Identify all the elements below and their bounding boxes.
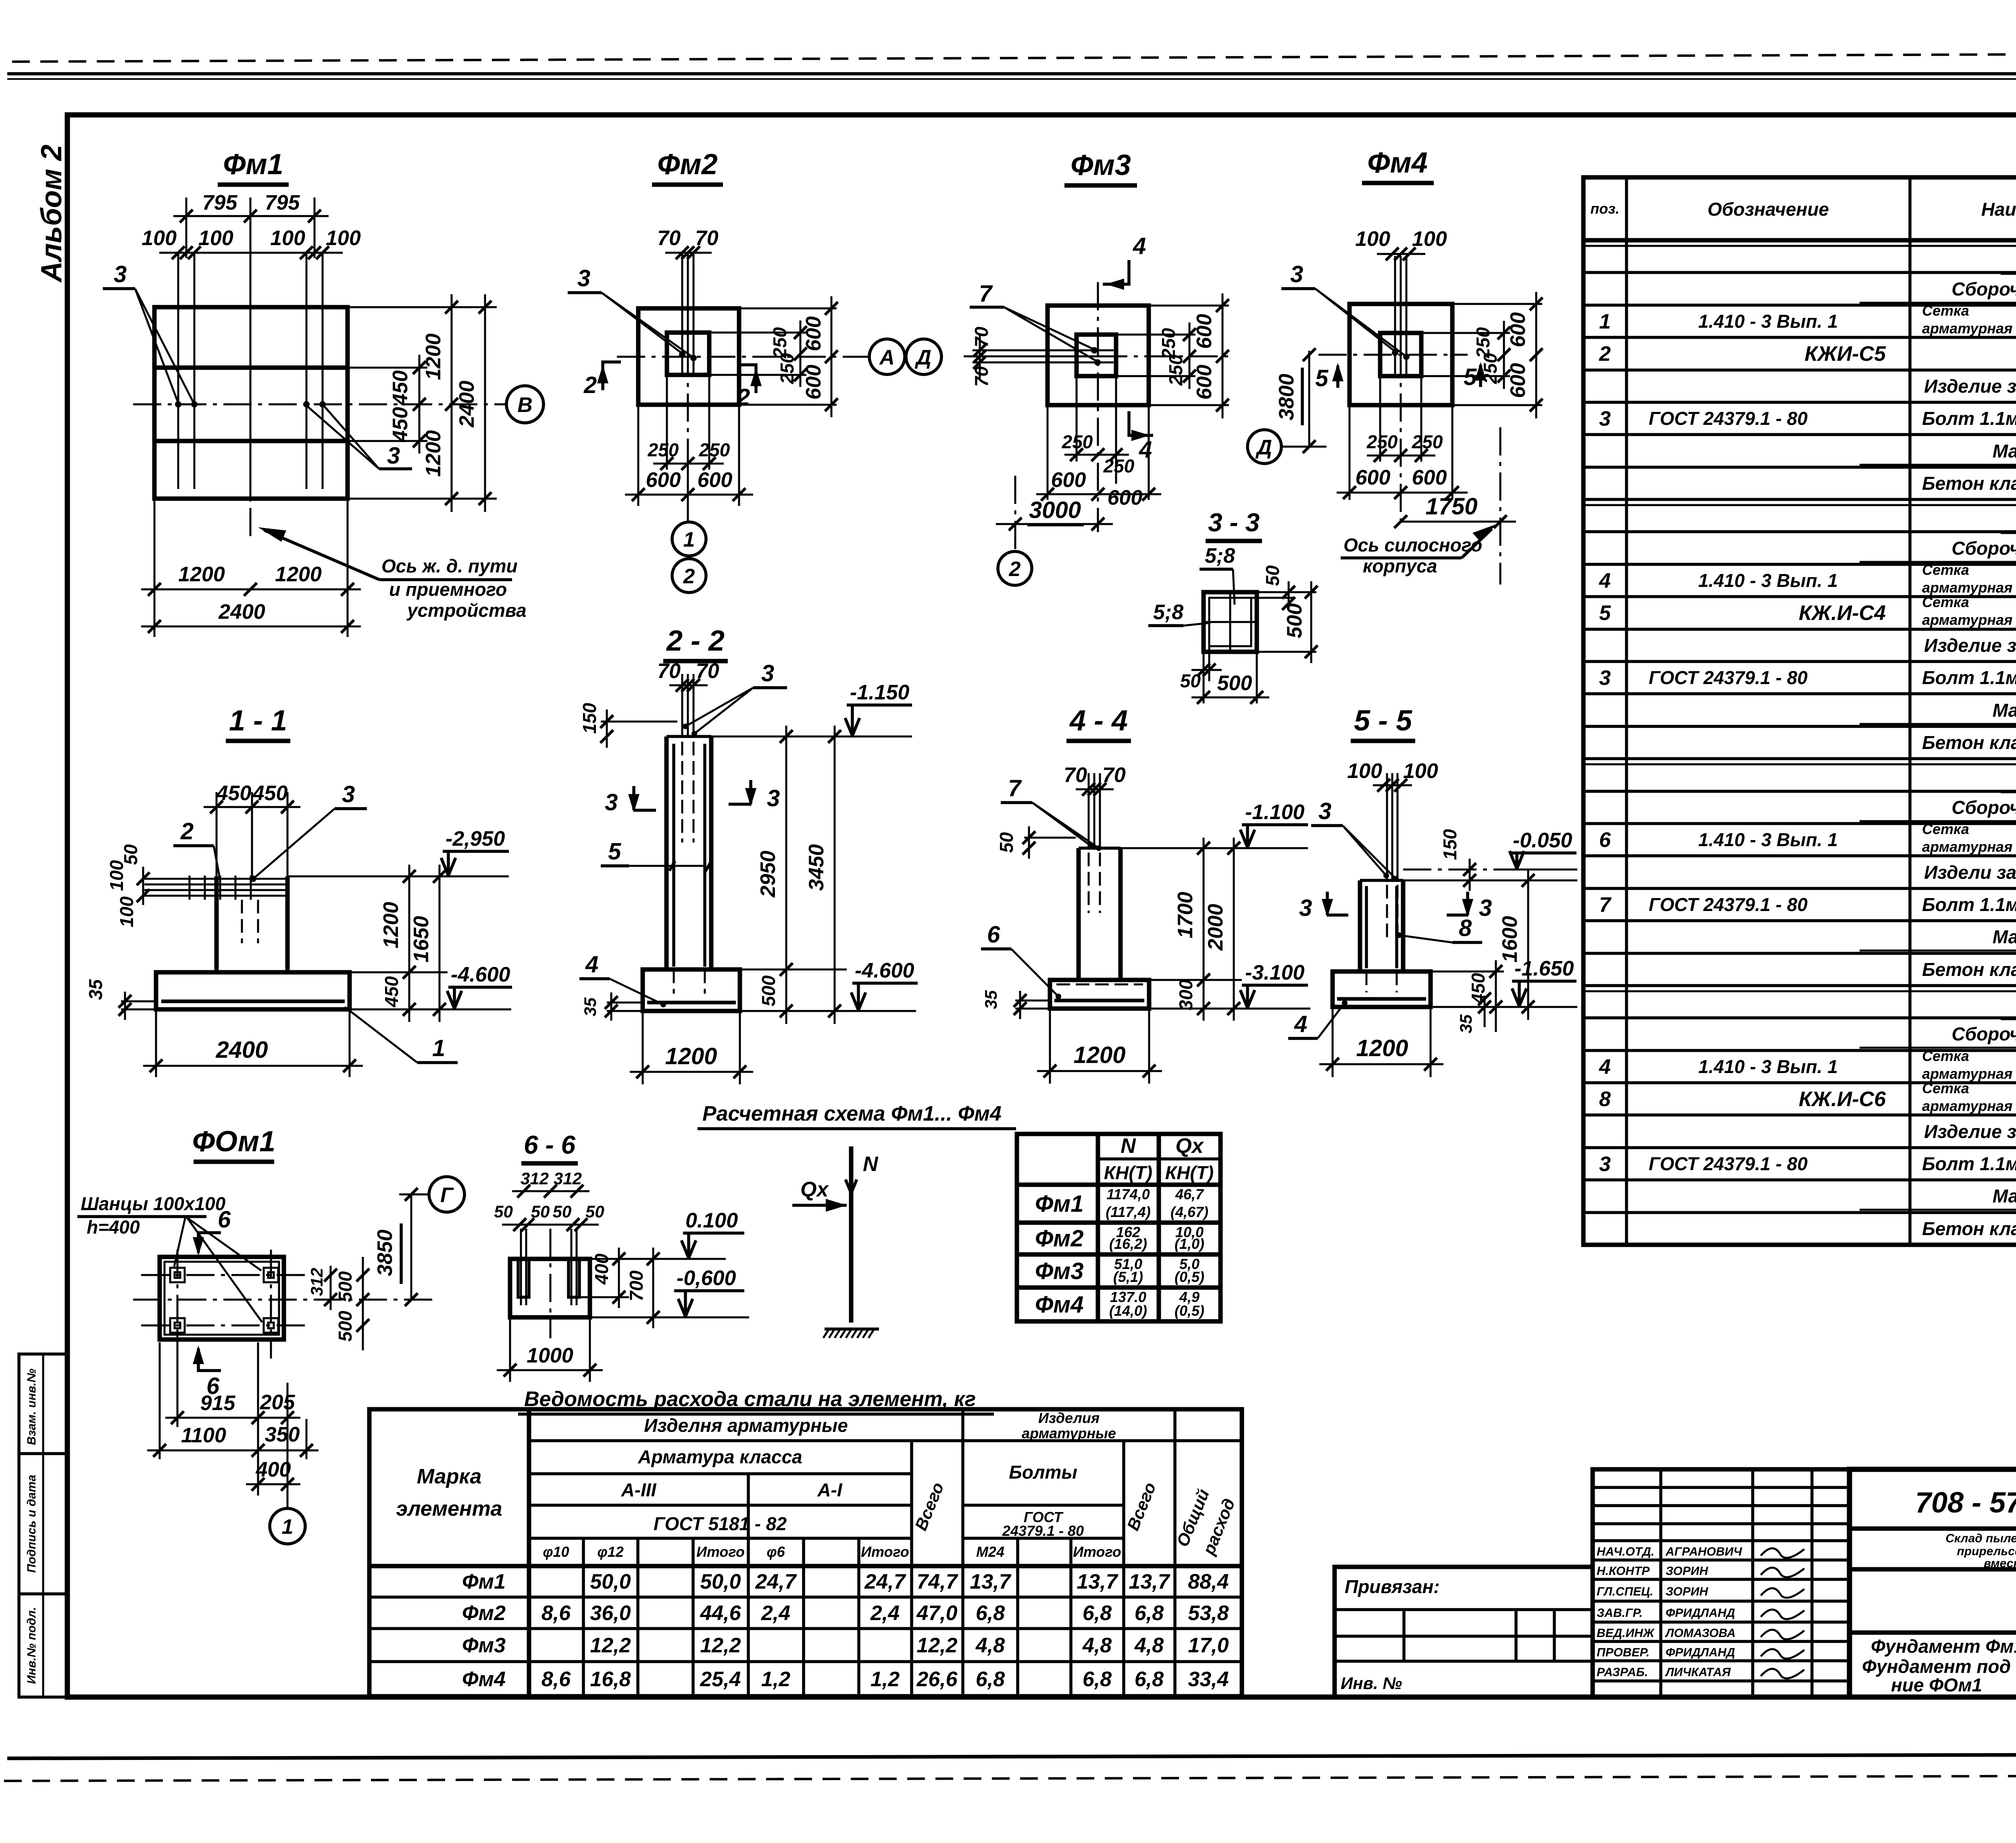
section 1-1 label 2 [173,818,220,878]
svg-text:(0,5): (0,5) [1175,1269,1204,1285]
spec row 27 [1599,1080,2016,1114]
svg-text:Сетка: Сетка [1922,594,1969,610]
plan Fm4 label 3 [1281,261,1406,356]
svg-text:600: 600 [646,468,681,492]
svg-text:Сетка: Сетка [1922,1048,1969,1064]
svg-text:-1.150: -1.150 [850,681,910,704]
svg-text:Д: Д [1255,436,1272,459]
spec row 13 [1924,635,2016,656]
section 5-5 section marks 3 [1299,892,1492,921]
section 2-2 label 4 [579,951,666,1007]
spec row 28 [1924,1121,2016,1142]
svg-text:500: 500 [758,975,779,1006]
svg-text:600: 600 [1506,363,1530,398]
svg-text:4: 4 [1133,233,1146,259]
svg-text:2950: 2950 [756,851,780,898]
plan Fm3 label 7 [970,281,1097,361]
svg-text:Фм3: Фм3 [1070,149,1131,181]
spec row 24 [1583,988,2016,1019]
svg-text:70: 70 [657,227,681,250]
section 1-1 left dims 50 100 100 [106,844,150,927]
svg-text:2: 2 [180,818,194,845]
svg-text:2: 2 [1599,342,1611,366]
spec row 8 [1922,473,2016,494]
svg-text:2: 2 [1009,557,1021,581]
svg-text:1200: 1200 [422,430,445,477]
svg-text:Фм2: Фм2 [657,148,718,181]
svg-text:Болт 1.1м24х500 Вст3кп2: Болт 1.1м24х500 Вст3кп2 [1922,894,2016,915]
svg-text:100: 100 [1347,759,1382,783]
svg-text:70: 70 [1102,763,1126,787]
svg-text:ЗОРИН: ЗОРИН [1666,1564,1708,1578]
svg-text:400: 400 [256,1458,291,1481]
plan Fm3 anchor bolts [973,347,1114,366]
svg-text:2400: 2400 [455,381,479,428]
title block text [1862,1487,2016,1695]
svg-text:ГОСТ 24379.1 - 80: ГОСТ 24379.1 - 80 [1649,1153,1808,1174]
calc scheme table [1017,1134,1220,1321]
svg-text:100: 100 [270,227,305,250]
svg-text:250: 250 [777,353,798,384]
svg-text:16,8: 16,8 [590,1668,631,1691]
svg-text:КН(Т): КН(Т) [1104,1162,1152,1183]
svg-text:6,8: 6,8 [976,1602,1005,1625]
plan Fm3 outline [1048,306,1149,405]
section 2-2 section marks 3 [605,780,780,815]
svg-text:Материалы: Материалы [1993,926,2016,947]
svg-text:Итого: Итого [696,1543,745,1560]
svg-text:1750: 1750 [1425,493,1477,520]
svg-text:25,4: 25,4 [700,1668,741,1691]
section 4-4 right dims [1120,838,1310,1021]
svg-text:35: 35 [581,997,600,1016]
plan Fm2 label 3 [568,265,693,357]
svg-text:1000: 1000 [527,1344,573,1367]
spec row 23 [1922,959,2016,980]
svg-text:-4.600: -4.600 [451,963,510,986]
svg-text:1: 1 [683,528,695,551]
svg-text:1200: 1200 [422,333,445,380]
plan Fm4 dim 1750 [1394,427,1516,585]
svg-text:795: 795 [265,191,300,214]
svg-text:350: 350 [265,1423,300,1446]
svg-text:6: 6 [987,921,1000,948]
spec row 4 [1599,342,2016,366]
svg-text:Подпись и дата: Подпись и дата [25,1475,38,1573]
calc scheme title [698,1102,1016,1129]
plan Fm1 outline [154,307,348,499]
svg-text:8: 8 [1599,1088,1611,1111]
svg-text:Итого: Итого [861,1543,909,1560]
svg-text:250: 250 [1165,354,1186,386]
section 4-4 elevation -3.100 [1240,961,1308,1008]
svg-text:1,2: 1,2 [871,1668,900,1691]
svg-text:3: 3 [342,781,355,807]
svg-text:600: 600 [698,468,733,492]
section 2-2 elevation -4.600 [851,959,918,1010]
section 5-5 title [1351,705,1415,741]
svg-text:Фм1: Фм1 [462,1570,506,1593]
plan Fm4 bottom dims [1337,376,1468,500]
spec row 1 [1583,243,2016,273]
svg-text:φ12: φ12 [597,1543,623,1560]
plan Fm1 label 3 right [306,404,412,469]
svg-text:N: N [863,1152,879,1176]
spec row 18 [1860,797,2016,821]
section 4-4 dim 1200 [1037,1009,1162,1084]
svg-text:Болты: Болты [1009,1462,1077,1483]
svg-text:3: 3 [114,261,127,287]
section 2-2 dim 150 [579,703,677,748]
signature table grid [1593,1469,1849,1697]
spec row 29 [1599,1152,2016,1176]
svg-text:1,2: 1,2 [761,1668,790,1691]
svg-text:600: 600 [1356,466,1391,489]
FOm1 bottom dims [147,1334,319,1508]
svg-text:500: 500 [1283,603,1306,639]
plan Fm1 label 3 left [103,261,194,404]
svg-text:50: 50 [531,1202,550,1221]
svg-text:450: 450 [381,976,402,1007]
svg-text:(16,2): (16,2) [1109,1236,1147,1252]
svg-text:3: 3 [605,789,618,815]
svg-text:450: 450 [389,407,412,443]
spec row 31 [1922,1218,2016,1239]
svg-text:Г: Г [440,1184,454,1207]
svg-text:3000: 3000 [1029,497,1081,523]
svg-text:ЗАВ.ГР.: ЗАВ.ГР. [1597,1606,1643,1620]
plan Fm2 dim 70 70 [657,227,719,259]
svg-text:РАЗРАБ.: РАЗРАБ. [1597,1666,1648,1679]
svg-text:50,0: 50,0 [700,1570,741,1593]
svg-text:Фм4: Фм4 [1035,1292,1083,1318]
svg-text:Изделня арматурные: Изделня арматурные [644,1415,848,1436]
plan Fm3 centerlines [964,282,1234,532]
svg-text:В: В [517,393,533,417]
section 3-3 label 5;8 top [1200,544,1235,605]
svg-text:Материалы: Материалы [1993,441,2016,462]
section 1-1 column [217,876,287,972]
steel table data [462,1570,1229,1691]
title block grid [1849,1469,2016,1697]
svg-text:ФРИДЛАНД: ФРИДЛАНД [1666,1606,1735,1620]
svg-text:поз.: поз. [1590,200,1619,217]
section 4-4 title [1066,705,1131,741]
svg-text:12,2: 12,2 [916,1634,957,1657]
spec row 20 [1924,862,2016,883]
spec row 6 [1599,407,2016,431]
section 1-1 elevation -2,950 [441,827,509,876]
svg-text:(14,0): (14,0) [1109,1302,1147,1319]
svg-text:Шанцы 100х100: Шанцы 100х100 [81,1193,226,1214]
svg-text:Изделие закладное: Изделие закладное [1924,1121,2016,1142]
section 5-5 dim 1200 [1319,1007,1443,1077]
svg-text:и приемного: и приемного [389,579,507,600]
svg-text:70: 70 [1064,763,1087,787]
svg-text:5: 5 [1599,601,1611,625]
svg-text:2000: 2000 [1204,904,1227,951]
svg-text:2400: 2400 [218,600,265,624]
svg-text:44,6: 44,6 [700,1602,741,1625]
svg-text:ФРИДЛАНД: ФРИДЛАНД [1666,1646,1735,1659]
svg-text:6,8: 6,8 [976,1668,1005,1691]
svg-text:Бетон класса В15: Бетон класса В15 [1922,1218,2016,1239]
svg-text:1700: 1700 [1174,892,1197,938]
svg-text:70: 70 [696,659,719,683]
svg-text:150: 150 [1439,829,1460,860]
plan Fm2 centerlines [617,258,868,439]
svg-text:h=400: h=400 [87,1217,140,1238]
svg-text:элемента: элемента [396,1497,502,1521]
svg-text:Фм3: Фм3 [462,1634,506,1657]
svg-text:12,2: 12,2 [590,1634,631,1657]
plan FOm1 title [192,1125,275,1162]
svg-text:ЛИЧКАТАЯ: ЛИЧКАТАЯ [1665,1666,1731,1679]
svg-text:500: 500 [1217,672,1252,695]
svg-text:ГЛ.СПЕЦ.: ГЛ.СПЕЦ. [1597,1585,1653,1598]
svg-text:Фм2: Фм2 [462,1602,506,1625]
svg-text:Марка: Марка [417,1465,482,1488]
svg-text:А: А [879,346,895,369]
svg-text:Сетка: Сетка [1922,302,1969,319]
plan Fm4 dim 100 100 [1355,227,1447,260]
svg-text:35: 35 [981,990,1000,1009]
svg-text:A-I: A-I [817,1479,843,1500]
section 2-2 dim 35 [581,992,643,1021]
svg-text:6: 6 [218,1206,231,1233]
spec row 15 [1860,700,2016,724]
svg-text:600: 600 [802,316,825,352]
svg-text:100: 100 [1403,759,1438,783]
svg-text:Бетон класса В15: Бетон класса В15 [1922,473,2016,494]
svg-text:-1.650: -1.650 [1514,957,1574,980]
section 3-3 title [1206,508,1262,541]
svg-text:3: 3 [1599,1152,1611,1176]
section 1-1 footing [156,972,350,1009]
svg-text:1 - 1: 1 - 1 [229,705,287,737]
svg-text:1.410 - 3 Вып. 1: 1.410 - 3 Вып. 1 [1698,1056,1838,1077]
svg-text:КН(Т): КН(Т) [1165,1162,1214,1183]
album label [35,145,68,283]
svg-text:Обозначение: Обозначение [1708,199,1829,220]
svg-text:1.410 - 3 Вып. 1: 1.410 - 3 Вып. 1 [1698,311,1838,332]
section 1-1 label 3 [250,781,367,882]
svg-text:ЗОРИН: ЗОРИН [1666,1585,1708,1598]
svg-text:3: 3 [1318,798,1331,824]
svg-text:1: 1 [1599,310,1611,333]
section 2-2 elevation -1.150 [845,681,912,736]
svg-text:74,7: 74,7 [916,1570,958,1593]
svg-text:5: 5 [1315,365,1329,391]
svg-text:(1,0): (1,0) [1175,1236,1204,1252]
plan Fm2 anchor bolts [679,254,697,374]
leader silo axis [1341,524,1497,576]
svg-text:500: 500 [335,1310,356,1342]
svg-text:24,7: 24,7 [864,1570,906,1593]
section 2-2 column [666,736,711,969]
svg-text:26,6: 26,6 [916,1668,958,1691]
svg-text:600: 600 [1412,466,1447,489]
svg-text:A-III: A-III [621,1479,657,1500]
svg-text:70: 70 [971,366,992,387]
svg-text:арматурная 2С: арматурная 2С [1922,838,2016,855]
svg-text:4: 4 [1139,437,1152,463]
svg-text:7: 7 [979,281,993,307]
svg-text:8,6: 8,6 [541,1668,571,1691]
section 5-5 bolts top [1347,759,1438,939]
svg-text:3800: 3800 [1275,374,1298,420]
section 4-4 column [1079,848,1120,980]
svg-text:312: 312 [554,1169,582,1188]
svg-text:3: 3 [1599,666,1611,690]
section 2-2 footing [643,969,740,1011]
axis circle V [506,386,544,423]
spec row 3 [1599,302,2016,338]
section 4-4 bolts top [1064,763,1126,913]
svg-text:2: 2 [683,565,695,588]
svg-text:арматурные: арматурные [1022,1425,1116,1442]
section 5-5 right dims [1403,869,1577,1033]
spec row 22 [1860,926,2016,951]
axis circles A D [869,339,941,374]
section 2-2 title [663,625,728,661]
section 3-3 label 5;8 left [1148,601,1210,626]
section 6-6 block [510,1229,590,1338]
plan Fm1 bottom dims [141,499,361,637]
svg-text:Материалы: Материалы [1993,700,2016,721]
svg-text:Ось силосного: Ось силосного [1343,535,1482,555]
svg-text:Сетка: Сетка [1922,1080,1969,1096]
svg-text:арматурная: арматурная [1922,612,2012,628]
section 1-1 elevation -4.600 [447,963,512,1009]
section 1-1 dim 35 [85,979,156,1020]
svg-text:4,8: 4,8 [1082,1634,1112,1657]
svg-text:(4,67): (4,67) [1170,1204,1208,1220]
spec row 14 [1599,666,2016,690]
svg-text:Qx: Qx [1175,1134,1204,1158]
plan Fm1 dim 795 795 [173,191,329,282]
section 5-5 column [1360,880,1403,971]
svg-text:арматурная 2С: арматурная 2С [1922,579,2016,596]
svg-text:100: 100 [106,860,127,891]
svg-text:Фм4: Фм4 [1367,147,1428,179]
section 2-2 right dims [711,726,916,1024]
calc scheme column diagram [792,1146,879,1338]
svg-text:3: 3 [767,785,780,811]
svg-text:6 - 6: 6 - 6 [524,1130,575,1159]
svg-text:0.100: 0.100 [685,1209,738,1232]
svg-text:1.410 - 3 Вып. 1: 1.410 - 3 Вып. 1 [1698,570,1838,591]
svg-text:вместимостью 0,5тыс. Т: вместимостью 0,5тыс. Т [1984,1557,2016,1570]
section 5-5 label 4 [1288,1000,1347,1038]
leader axis railway [258,527,527,621]
svg-text:4 - 4: 4 - 4 [1069,705,1128,737]
svg-text:Сборочные единицы: Сборочные единицы [1951,279,2016,300]
svg-text:5: 5 [608,838,621,865]
svg-text:3850: 3850 [373,1229,397,1276]
svg-text:6,8: 6,8 [1083,1668,1112,1691]
svg-text:4: 4 [1599,569,1611,593]
svg-text:46,7: 46,7 [1175,1186,1204,1202]
svg-text:50: 50 [494,1202,513,1221]
svg-text:1200: 1200 [665,1043,717,1069]
svg-text:50,0: 50,0 [590,1570,631,1593]
svg-text:(0,5): (0,5) [1175,1302,1204,1319]
svg-text:450: 450 [252,782,288,805]
svg-text:Фм1: Фм1 [223,148,283,181]
dim 3800 axis D [1248,348,1327,464]
plan Fm3 right dims [1116,293,1229,418]
svg-text:205: 205 [260,1391,296,1414]
svg-text:2,4: 2,4 [870,1602,900,1625]
plan Fm4 section marks 5 [1315,362,1486,391]
section 4-4 dim 50 [996,826,1076,859]
svg-text:4,8: 4,8 [1134,1634,1164,1657]
svg-text:12,2: 12,2 [700,1634,741,1657]
svg-text:150: 150 [579,703,600,734]
svg-text:100: 100 [326,227,361,250]
svg-text:35: 35 [1456,1014,1475,1033]
svg-text:Фм4: Фм4 [462,1668,506,1691]
svg-text:100: 100 [116,896,137,927]
plan Fm4 centerlines [1318,258,1468,528]
svg-text:Арматура класса: Арматура класса [637,1446,802,1467]
svg-text:Бетон класса В15: Бетон класса В15 [1922,732,2016,753]
plan Fm1 centerlines [133,282,507,536]
svg-text:8,6: 8,6 [541,1602,571,1625]
svg-text:Расчетная схема Фм1... Фм4: Расчетная схема Фм1... Фм4 [702,1102,1002,1125]
svg-text:70: 70 [695,227,719,250]
section 4-4 label 6 [981,921,1061,999]
svg-text:-1.100: -1.100 [1245,801,1305,824]
svg-text:φ10: φ10 [543,1543,569,1560]
svg-text:φ6: φ6 [766,1543,785,1560]
spec row 17 [1583,761,2016,792]
svg-text:прирельсовый силосного типа: прирельсовый силосного типа (мобильный) [1957,1545,2016,1558]
svg-text:ЛОМАЗОВА: ЛОМАЗОВА [1665,1627,1736,1640]
svg-text:4: 4 [1294,1011,1307,1037]
svg-text:300: 300 [1175,979,1196,1010]
section 3-3 dims [1180,565,1318,704]
svg-text:Болт 1.1м24х800 Вст3кп2: Болт 1.1м24х800 Вст3кп2 [1922,667,2016,688]
svg-text:6,8: 6,8 [1135,1602,1164,1625]
section 5-5 footing [1333,971,1431,1007]
svg-text:450: 450 [216,782,252,805]
svg-text:5 - 5: 5 - 5 [1354,705,1412,737]
svg-text:88,4: 88,4 [1188,1570,1229,1593]
svg-text:250: 250 [648,439,679,460]
svg-text:Изделие закладное: Изделие закладное [1924,376,2016,397]
spec row 5 [1924,376,2016,397]
svg-text:250: 250 [1062,431,1093,452]
section 4-4 elevation -1.100 [1240,801,1308,847]
plan Fm3 section marks 4 [1103,233,1153,463]
svg-text:Инв.№ подл.: Инв.№ подл. [25,1607,38,1684]
svg-text:100: 100 [142,227,177,250]
svg-text:50: 50 [996,832,1017,853]
svg-text:Сборочные единицы: Сборочные единицы [1951,797,2016,818]
plan Fm4 anchor bolts [1392,256,1410,374]
svg-text:600: 600 [1051,468,1086,492]
plan Fm1 dim 100x4 [142,227,361,259]
spec row 9 [1583,502,2016,533]
svg-text:36,0: 36,0 [590,1602,631,1625]
plan Fm4 right dims [1421,292,1543,418]
svg-text:Инв. №: Инв. № [1341,1674,1402,1693]
svg-text:700: 700 [626,1270,647,1301]
svg-text:600: 600 [802,365,825,400]
sheet top hatch line [12,53,2016,62]
